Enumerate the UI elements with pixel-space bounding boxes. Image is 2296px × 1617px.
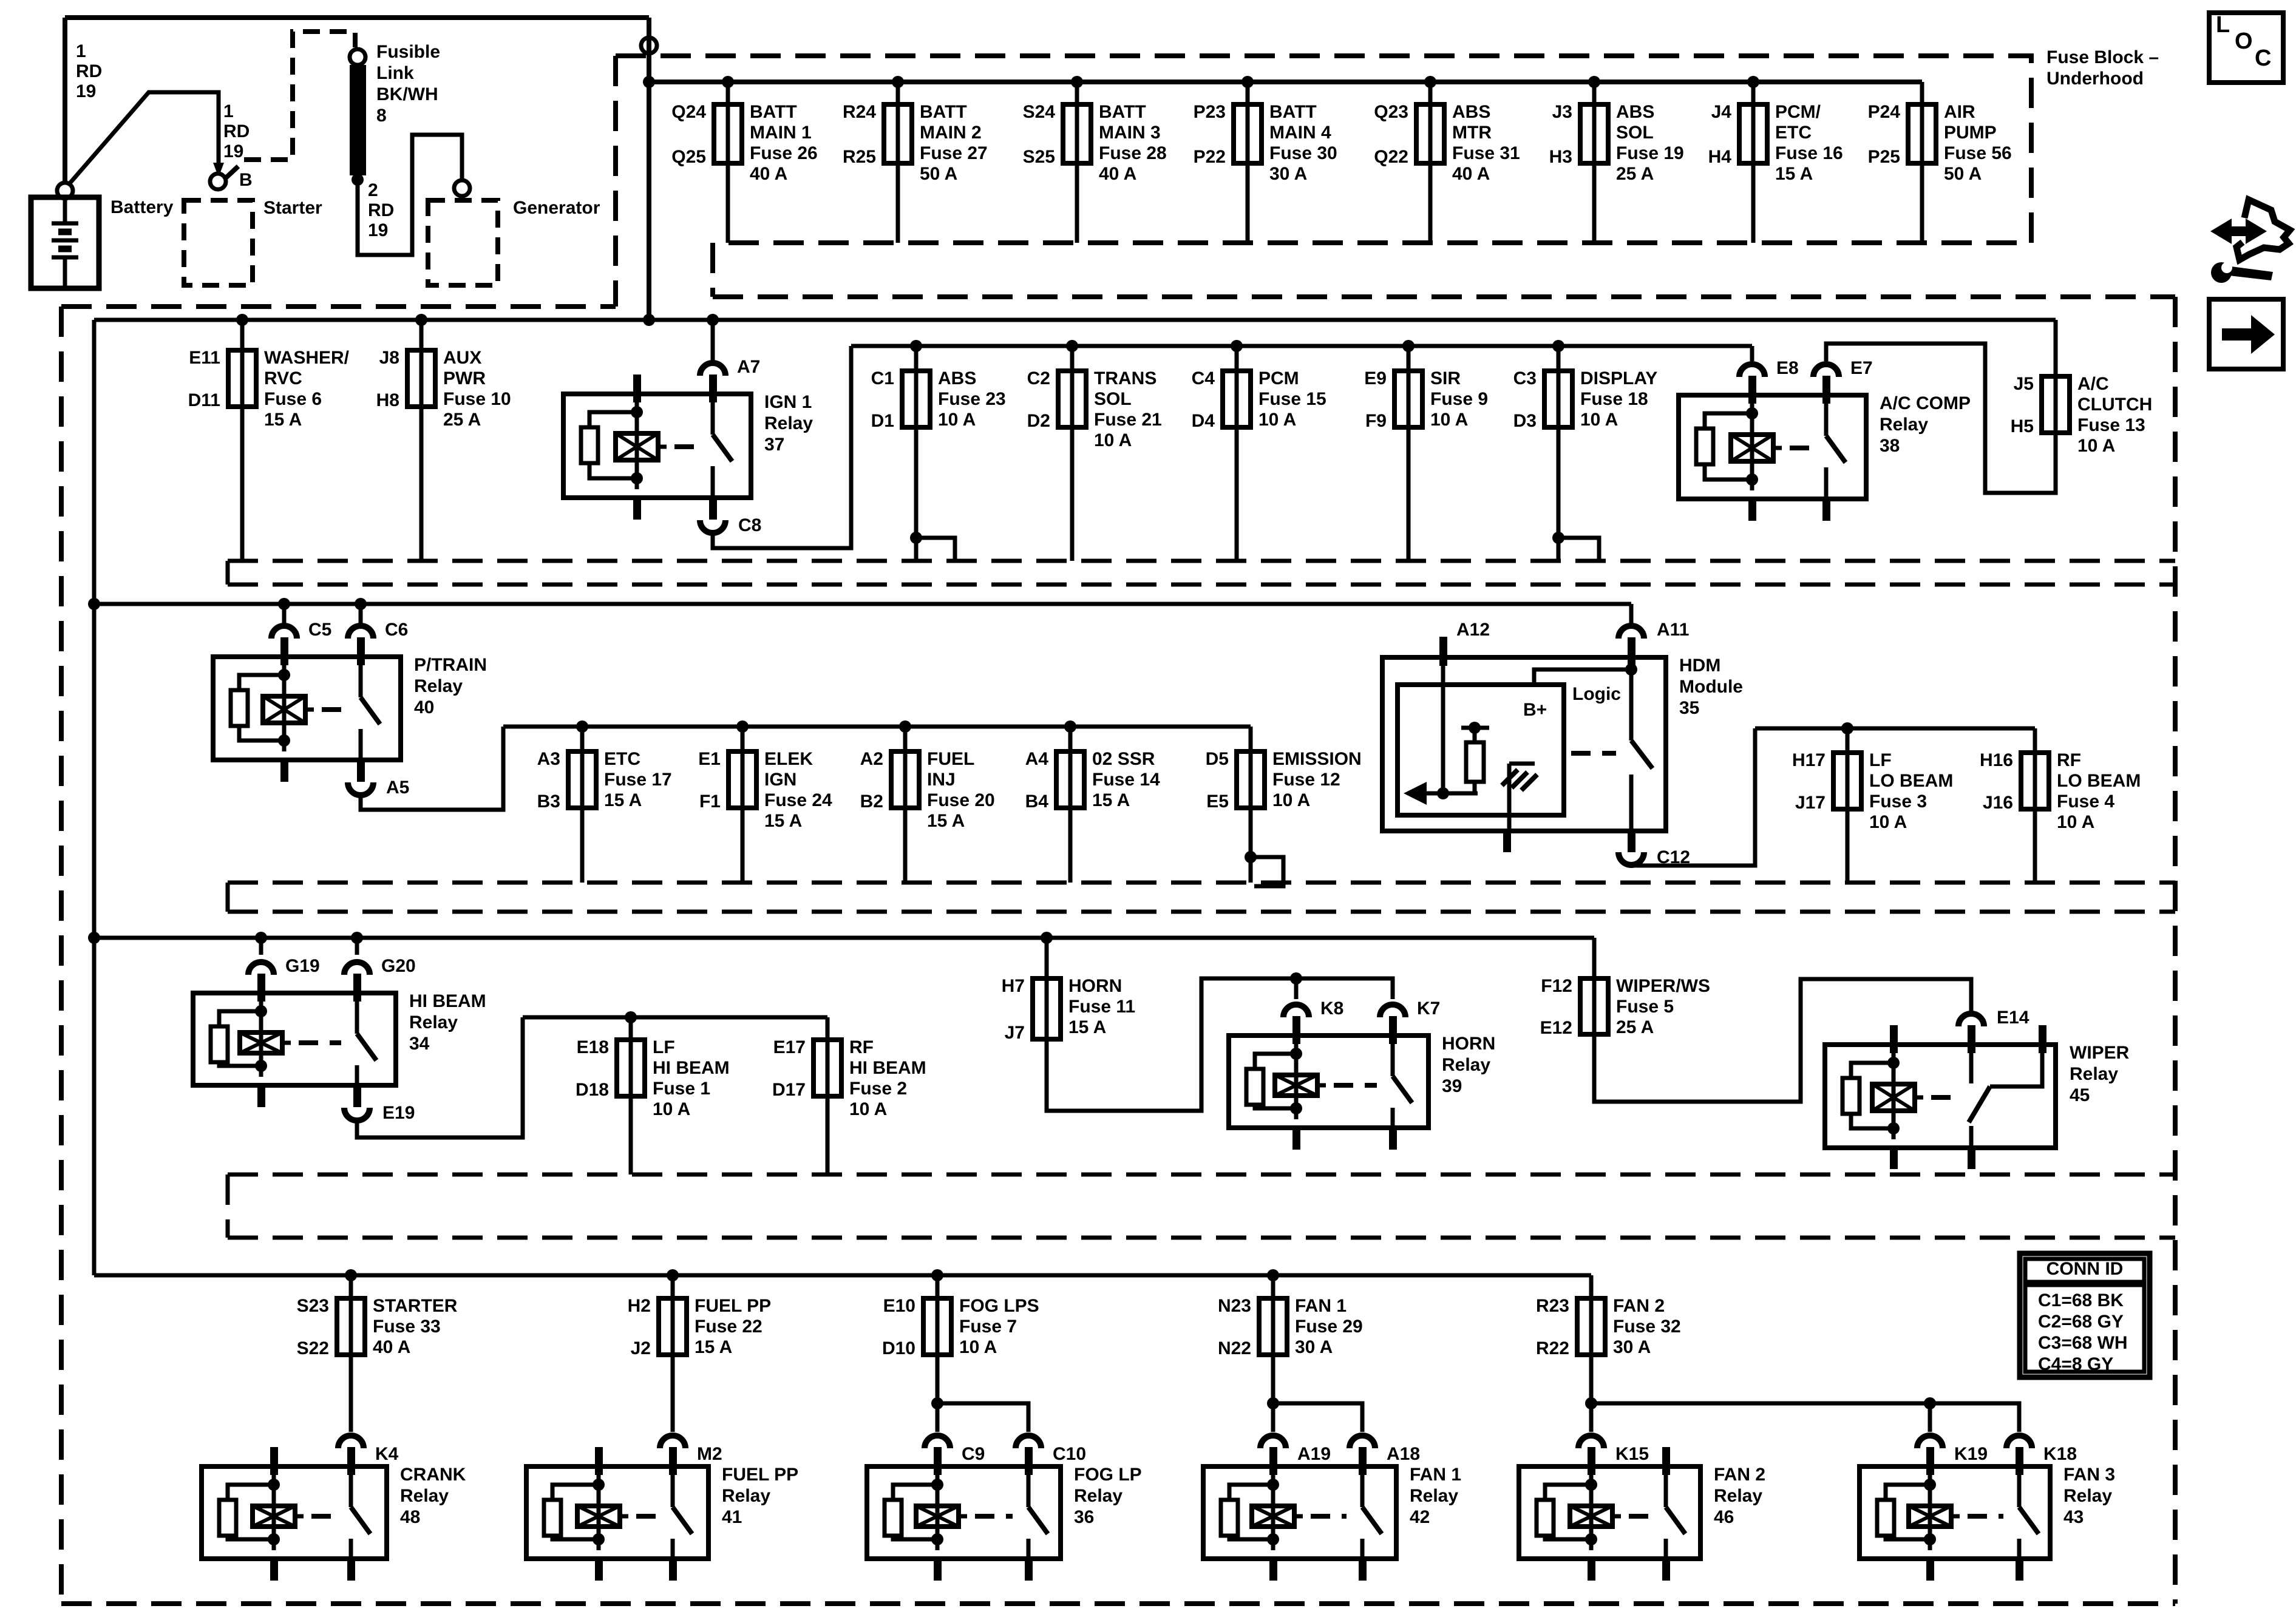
svg-text:D3: D3: [1513, 411, 1537, 431]
svg-text:10 A: 10 A: [1258, 410, 1296, 430]
svg-text:O: O: [2235, 29, 2253, 54]
svg-text:ABS: ABS: [938, 368, 976, 388]
svg-text:K4: K4: [375, 1444, 399, 1464]
svg-text:P23: P23: [1194, 102, 1226, 122]
svg-text:Module: Module: [1679, 677, 1743, 697]
fuse Fuse 23 (ABS): [914, 371, 919, 427]
svg-text:ETC: ETC: [604, 749, 640, 769]
fuse Fuse 15 (PCM): [1235, 371, 1239, 427]
wire A7 feed from bus1: [711, 320, 715, 361]
svg-text:ETC: ETC: [1775, 123, 1812, 143]
svg-text:MAIN 4: MAIN 4: [1269, 123, 1331, 143]
svg-text:D10: D10: [882, 1338, 915, 1358]
relay FOG LP Relay 36: [867, 1466, 1061, 1559]
svg-text:ABS: ABS: [1616, 102, 1654, 122]
svg-text:C3=68 WH: C3=68 WH: [2038, 1333, 2128, 1353]
svg-text:MTR: MTR: [1452, 123, 1492, 143]
svg-text:10 A: 10 A: [2077, 436, 2115, 456]
svg-text:Relay: Relay: [1410, 1486, 1458, 1506]
svg-text:E19: E19: [382, 1103, 415, 1123]
arrowhead into starter terminal: [213, 163, 224, 177]
junction row5 bus at H2: [667, 1269, 679, 1281]
relay FUEL PP Relay 41: [526, 1466, 708, 1559]
wire C12 to LO BEAM fuse bus: [1631, 728, 1755, 866]
svg-text:RF: RF: [849, 1037, 874, 1057]
wire A12 internal to arrow node: [1441, 666, 1445, 793]
wire FAN 2 fuse column: [1589, 1275, 1594, 1298]
svg-text:PWR: PWR: [443, 368, 486, 388]
svg-text:30 A: 30 A: [1269, 164, 1307, 184]
svg-text:SOL: SOL: [1616, 123, 1654, 143]
svg-text:Q22: Q22: [1374, 147, 1408, 167]
junction LF HI BEAM: [625, 1011, 637, 1023]
svg-text:ABS: ABS: [1452, 102, 1490, 122]
svg-text:LO BEAM: LO BEAM: [2057, 771, 2141, 791]
svg-text:TRANS: TRANS: [1094, 368, 1156, 388]
svg-text:E5: E5: [1206, 792, 1229, 812]
svg-text:10 A: 10 A: [1272, 790, 1310, 810]
fuse (D5/E5) Fuse 12: [1249, 751, 1253, 808]
wire G20 feed: [355, 938, 359, 955]
svg-text:D11: D11: [188, 390, 220, 410]
junction row2 bus at PCM: [1231, 340, 1243, 352]
battery B1: [31, 197, 99, 288]
svg-text:G20: G20: [381, 956, 416, 976]
fuse (A4/B4) Fuse 14: [1068, 751, 1073, 808]
wire BATT MAIN 4 fuse column: [1246, 82, 1250, 243]
body repair icon (double arrow, outline, wrench): [2230, 226, 2247, 236]
svg-text:FUEL PP: FUEL PP: [695, 1296, 771, 1316]
internal resistor: [1469, 722, 1481, 734]
svg-text:Fuse 3: Fuse 3: [1869, 792, 1927, 812]
svg-text:Relay: Relay: [722, 1486, 770, 1506]
junction row3 bus at C5: [278, 598, 290, 610]
wire main bus row2 (from battery feed): [94, 318, 2056, 322]
svg-text:Fuse 11: Fuse 11: [1068, 997, 1135, 1017]
starter (dashed box): [184, 200, 253, 285]
LOC legend box: [2209, 13, 2283, 83]
wire HORN fuse output to K8/K7: [1047, 978, 1393, 1111]
svg-text:40 A: 40 A: [373, 1337, 410, 1357]
svg-text:P24: P24: [1868, 102, 1901, 122]
junction bus1 x=399: [236, 314, 248, 326]
wire A11 feed from row3 bus: [1629, 604, 1634, 624]
junction bus1 x=694: [415, 314, 427, 326]
svg-text:A7: A7: [737, 357, 760, 377]
svg-text:P22: P22: [1194, 147, 1226, 167]
svg-text:35: 35: [1679, 698, 1699, 718]
svg-text:J2: J2: [631, 1338, 651, 1358]
svg-text:AUX: AUX: [443, 348, 481, 368]
svg-text:E12: E12: [1540, 1018, 1572, 1038]
svg-text:RD: RD: [368, 200, 394, 220]
wire STARTER fuse to K4: [349, 1355, 353, 1432]
junction fusible link bottom: [352, 174, 364, 186]
svg-text:AIR: AIR: [1944, 102, 1975, 122]
relay FAN 2 Relay 46: [1519, 1466, 1700, 1559]
internal arrow (B+ sense): [1421, 792, 1478, 796]
svg-text:K15: K15: [1615, 1444, 1649, 1464]
wire LF LO BEAM fuse column: [1846, 728, 1850, 883]
svg-text:CONN ID: CONN ID: [2046, 1259, 2124, 1279]
svg-text:J3: J3: [1552, 102, 1572, 122]
svg-text:A5: A5: [386, 778, 409, 798]
fuse Fuse 9 (SIR): [1407, 371, 1411, 427]
svg-text:E10: E10: [883, 1296, 915, 1316]
wire WIPER/WS fuse column: [1592, 938, 1597, 978]
svg-text:B2: B2: [860, 792, 883, 812]
svg-text:IGN 1: IGN 1: [764, 392, 812, 412]
wire HORN fuse column: [1045, 938, 1049, 978]
HDM switch: [1629, 670, 1634, 741]
svg-text:S22: S22: [297, 1338, 329, 1358]
svg-text:Generator: Generator: [513, 198, 600, 218]
svg-text:C4=8 GY: C4=8 GY: [2038, 1354, 2113, 1374]
dashed divider row3/row4: [228, 881, 2175, 885]
relay HORN Relay 39: [1229, 1036, 1428, 1128]
dashed divider row2/row3: [228, 559, 2175, 563]
svg-text:10 A: 10 A: [1869, 812, 1907, 832]
svg-text:PUMP: PUMP: [1944, 123, 1997, 143]
svg-text:C2=68 GY: C2=68 GY: [2038, 1312, 2124, 1332]
wire FOG LPS fuse column: [936, 1275, 940, 1298]
wire WIPER/WS fuse output to E14: [1594, 979, 1971, 1102]
wire C5 feed: [282, 604, 287, 624]
wire AIR PUMP fuse column: [1920, 82, 1924, 243]
svg-text:39: 39: [1442, 1076, 1462, 1096]
connector E14: [1958, 1014, 1984, 1026]
node generator terminal ring: [454, 180, 470, 196]
svg-text:Fusible: Fusible: [376, 42, 440, 62]
junction EMISSION fuse output: [1245, 851, 1257, 863]
wire A11 to logic: [1625, 663, 1637, 676]
svg-text:B3: B3: [537, 792, 560, 812]
underhood electrical center dashed enclosure: [61, 304, 616, 309]
svg-text:J17: J17: [1795, 793, 1826, 813]
svg-text:Fuse 15: Fuse 15: [1258, 389, 1326, 409]
wire LO BEAM fuse bus: [1755, 727, 2035, 731]
svg-text:A18: A18: [1387, 1444, 1420, 1464]
svg-text:C4: C4: [1192, 368, 1215, 388]
wire PCM fuse column: [1235, 346, 1239, 561]
fuse Fuse 29 (FAN 1): [1271, 1298, 1275, 1355]
wire WASHER/RVC fuse column: [240, 320, 245, 561]
svg-text:Fuse 31: Fuse 31: [1452, 143, 1520, 163]
svg-text:E9: E9: [1364, 368, 1387, 388]
svg-text:RVC: RVC: [264, 368, 302, 388]
wire A5 output to row3 fuse bus: [361, 727, 503, 810]
node main feed ring: [641, 38, 657, 53]
wire row5 trunk bus: [94, 1273, 1591, 1278]
svg-text:Fuse 56: Fuse 56: [1944, 143, 2012, 163]
svg-text:C3: C3: [1513, 368, 1537, 388]
svg-text:40 A: 40 A: [750, 164, 787, 184]
junction row3 fuse bus at A3: [576, 720, 588, 733]
svg-text:Relay: Relay: [1880, 415, 1928, 435]
junction row3 fuse bus at A2: [899, 720, 911, 733]
svg-text:25 A: 25 A: [1616, 1017, 1654, 1037]
fuse Fuse 7 (FOG LPS): [936, 1298, 940, 1355]
svg-text:N23: N23: [1218, 1296, 1251, 1316]
svg-text:Fuse Block –: Fuse Block –: [2046, 47, 2159, 67]
junction row5 bus at S23: [345, 1269, 357, 1281]
svg-text:Relay: Relay: [1074, 1486, 1123, 1506]
wire AUX PWR fuse column: [419, 320, 424, 561]
svg-text:1: 1: [223, 101, 234, 121]
node fusible link top ring: [350, 49, 365, 65]
wire BATT MAIN 1 fuse column: [726, 82, 730, 243]
svg-text:SOL: SOL: [1094, 389, 1132, 409]
wire LF HI BEAM fuse column: [629, 1017, 633, 1175]
svg-text:30 A: 30 A: [1295, 1337, 1333, 1357]
wire FAN 2 fuse to FAN 3 feeds: [1591, 1403, 2019, 1432]
wire BATT MAIN 3 fuse column: [1075, 82, 1079, 243]
svg-text:Fuse 28: Fuse 28: [1099, 143, 1167, 163]
fuse Fuse 28 (BATT MAIN 3): [1075, 104, 1079, 163]
WIPER relay switch: [1969, 1053, 1974, 1083]
svg-text:HORN: HORN: [1442, 1034, 1495, 1054]
wire RF HI BEAM fuse column: [826, 1017, 830, 1175]
svg-text:Q24: Q24: [671, 102, 706, 122]
svg-text:19: 19: [76, 81, 96, 101]
svg-text:E17: E17: [773, 1037, 806, 1057]
svg-text:F12: F12: [1541, 976, 1572, 996]
svg-text:J5: J5: [2014, 374, 2034, 394]
svg-text:45: 45: [2070, 1085, 2090, 1105]
wire A/C CLUTCH fuse feed from bus1: [2054, 320, 2058, 376]
relay WIPER Relay 45 box: [1825, 1045, 2056, 1148]
svg-text:Fuse 6: Fuse 6: [264, 389, 322, 409]
module HDM Module 35 box: [1382, 657, 1666, 831]
svg-text:A/C: A/C: [2077, 374, 2109, 394]
svg-text:Fuse 4: Fuse 4: [2057, 792, 2114, 812]
fuse Fuse 33 (STARTER): [349, 1298, 353, 1355]
junction top bus at BATT MAIN 2: [892, 76, 904, 88]
svg-text:BK/WH: BK/WH: [376, 84, 438, 104]
svg-text:25 A: 25 A: [1616, 164, 1654, 184]
svg-text:25 A: 25 A: [443, 410, 481, 430]
svg-text:M2: M2: [697, 1444, 722, 1464]
svg-text:BATT: BATT: [750, 102, 797, 122]
svg-text:50 A: 50 A: [920, 164, 957, 184]
junction row3 fuse bus at A4: [1064, 720, 1076, 733]
wire ABS fuse column: [914, 346, 919, 561]
svg-text:LF: LF: [653, 1037, 675, 1057]
svg-text:R22: R22: [1536, 1338, 1569, 1358]
svg-text:15 A: 15 A: [264, 410, 302, 430]
relay CRANK Relay 48: [202, 1466, 387, 1559]
svg-text:CRANK: CRANK: [400, 1465, 466, 1485]
fusible link BK/WH 8: [350, 65, 366, 175]
wire STARTER fuse column: [349, 1275, 353, 1298]
svg-text:30 A: 30 A: [1613, 1337, 1651, 1357]
svg-text:Fuse 16: Fuse 16: [1775, 143, 1843, 163]
svg-text:S24: S24: [1023, 102, 1056, 122]
svg-text:R23: R23: [1536, 1296, 1569, 1316]
wire PCM/ ETC fuse column: [1751, 82, 1756, 243]
junction row4 bus at H7: [1041, 932, 1053, 944]
fuse Fuse 3 (LF LO BEAM): [1846, 753, 1850, 809]
svg-text:Fuse 21: Fuse 21: [1094, 410, 1162, 430]
junction K19 feed: [1924, 1397, 1936, 1409]
svg-text:BATT: BATT: [1099, 102, 1146, 122]
wire C8 output to row2 fuse bus: [713, 346, 851, 548]
svg-text:Relay: Relay: [2070, 1064, 2118, 1084]
svg-text:10 A: 10 A: [1580, 410, 1618, 430]
svg-text:PCM: PCM: [1258, 368, 1299, 388]
svg-text:S23: S23: [297, 1296, 329, 1316]
svg-text:H7: H7: [1002, 976, 1025, 996]
junction row2 bus at DISPLAY: [1552, 340, 1564, 352]
junction top bus at BATT MAIN 3: [1071, 76, 1083, 88]
junction row2 bus at TRANS: [1066, 340, 1078, 352]
junction K8 feed: [1290, 972, 1302, 985]
svg-text:Fuse 33: Fuse 33: [373, 1317, 441, 1337]
svg-text:S25: S25: [1023, 147, 1055, 167]
junction row4 bus at left trunk: [88, 932, 100, 944]
svg-text:10 A: 10 A: [938, 410, 976, 430]
svg-text:Fuse 9: Fuse 9: [1430, 389, 1488, 409]
generator (dashed box): [428, 200, 498, 285]
fuse (E1/F1) Fuse 24: [741, 751, 745, 808]
svg-text:19: 19: [223, 141, 243, 161]
wire RF LO BEAM fuse column: [2033, 728, 2037, 883]
svg-text:HI BEAM: HI BEAM: [849, 1058, 926, 1078]
svg-text:MAIN 1: MAIN 1: [750, 123, 812, 143]
dashed wire starter B to fusible link: [226, 32, 355, 178]
svg-text:FAN 1: FAN 1: [1295, 1296, 1347, 1316]
svg-text:C8: C8: [738, 515, 761, 535]
wire FAN 1 fuse column: [1271, 1275, 1275, 1298]
svg-text:CLUTCH: CLUTCH: [2077, 395, 2152, 415]
svg-text:K18: K18: [2043, 1444, 2077, 1464]
svg-text:E14: E14: [1997, 1008, 2029, 1028]
svg-text:E11: E11: [189, 348, 220, 368]
svg-text:C10: C10: [1053, 1444, 1086, 1464]
svg-text:N22: N22: [1218, 1338, 1251, 1358]
svg-text:Q23: Q23: [1374, 102, 1408, 122]
fuse Fuse 56 (AIR PUMP): [1920, 104, 1924, 163]
junction top bus at ABS SOL: [1588, 76, 1600, 88]
svg-text:10 A: 10 A: [959, 1337, 997, 1357]
svg-text:Relay: Relay: [409, 1012, 458, 1032]
svg-text:Starter: Starter: [263, 198, 322, 218]
svg-text:A11: A11: [1657, 620, 1689, 640]
svg-text:C6: C6: [385, 620, 408, 640]
wire 2 RD 19 fusible link to generator: [358, 135, 462, 255]
svg-text:HI BEAM: HI BEAM: [409, 991, 486, 1011]
svg-text:E18: E18: [577, 1037, 609, 1057]
wire G19 feed: [259, 938, 263, 955]
svg-text:H8: H8: [376, 390, 399, 410]
relay HI BEAM Relay 34: [193, 993, 396, 1085]
svg-text:Logic: Logic: [1572, 684, 1621, 704]
svg-text:C1: C1: [871, 368, 894, 388]
fuse (A2/B2) Fuse 20: [903, 751, 908, 808]
svg-text:FAN 3: FAN 3: [2063, 1465, 2115, 1485]
svg-text:INJ: INJ: [927, 770, 956, 790]
svg-text:WIPER: WIPER: [2070, 1043, 2130, 1063]
wire A3 fuse column: [580, 727, 585, 883]
wire A2 fuse column: [903, 727, 908, 883]
wire 1 RD 19 battery to starter B: [69, 92, 219, 184]
svg-text:F1: F1: [699, 792, 721, 812]
page-connector square at EMISSION output: [1251, 857, 1283, 886]
fuse Fuse 5 (WIPER/WS): [1592, 978, 1597, 1034]
svg-text:40: 40: [414, 697, 434, 717]
svg-text:H2: H2: [628, 1296, 651, 1316]
wire row2 fuse bus: [851, 344, 1752, 348]
wire row3 fuse bus: [503, 725, 1251, 729]
svg-text:43: 43: [2063, 1507, 2084, 1527]
svg-text:HI BEAM: HI BEAM: [653, 1058, 730, 1078]
svg-text:J7: J7: [1005, 1023, 1025, 1043]
svg-text:D5: D5: [1206, 749, 1229, 769]
relay IGN 1 Relay 37: [563, 394, 751, 498]
junction row5 bus at N23: [1267, 1269, 1279, 1281]
svg-text:Underhood: Underhood: [2046, 69, 2144, 89]
svg-text:Fuse 22: Fuse 22: [695, 1317, 763, 1337]
svg-text:A/C COMP: A/C COMP: [1880, 393, 1971, 413]
wire row4 trunk bus: [94, 936, 1594, 940]
connector C12: [1618, 852, 1644, 865]
wire FUEL PP fuse to M2: [671, 1355, 675, 1432]
svg-text:E7: E7: [1850, 358, 1873, 378]
svg-text:FAN 2: FAN 2: [1613, 1296, 1665, 1316]
svg-text:B+: B+: [1523, 700, 1547, 720]
forward arrow box icon: [2209, 299, 2283, 369]
junction DISPLAY fuse output split: [1552, 532, 1564, 544]
junction bus1 x=1069: [643, 314, 655, 326]
svg-text:36: 36: [1074, 1507, 1094, 1527]
junction row5 bus at E10: [931, 1269, 943, 1281]
junction top bus at BATT MAIN 1: [722, 76, 734, 88]
svg-text:Fuse 17: Fuse 17: [604, 770, 672, 790]
wire SIR fuse column: [1407, 346, 1411, 561]
relay FAN 3 Relay 43: [1860, 1466, 2050, 1559]
junction row2 bus at SIR: [1402, 340, 1415, 352]
wire row3 trunk bus: [94, 602, 1631, 606]
wire FOG LPS fuse output split: [936, 1355, 940, 1432]
svg-text:D2: D2: [1027, 411, 1050, 431]
pin A12: [1439, 637, 1447, 666]
svg-text:41: 41: [722, 1507, 742, 1527]
svg-text:P/TRAIN: P/TRAIN: [414, 655, 487, 675]
svg-text:WIPER/WS: WIPER/WS: [1616, 976, 1710, 996]
svg-text:R24: R24: [843, 102, 876, 122]
svg-text:F9: F9: [1365, 411, 1387, 431]
fuse Fuse 27 (BATT MAIN 2): [896, 104, 900, 163]
svg-text:FUEL PP: FUEL PP: [722, 1465, 798, 1485]
svg-text:15 A: 15 A: [927, 811, 965, 831]
svg-text:J8: J8: [379, 348, 399, 368]
svg-text:RD: RD: [76, 61, 102, 81]
svg-text:STARTER: STARTER: [373, 1296, 458, 1316]
wire HI BEAM fuse bus: [523, 1015, 827, 1020]
fuse (A3/B3) Fuse 17: [580, 751, 585, 808]
fuse Fuse 11 (HORN): [1045, 978, 1049, 1039]
svg-text:WASHER/: WASHER/: [264, 348, 350, 368]
junction ABS fuse output split: [910, 532, 922, 544]
svg-text:10 A: 10 A: [653, 1099, 690, 1119]
wire A4 fuse column: [1068, 727, 1073, 883]
svg-text:RF: RF: [2057, 750, 2081, 770]
svg-text:G19: G19: [285, 956, 320, 976]
svg-text:40 A: 40 A: [1099, 164, 1136, 184]
svg-text:FOG LP: FOG LP: [1074, 1465, 1142, 1485]
junction row4 bus at G20: [351, 932, 363, 944]
svg-text:Fuse 26: Fuse 26: [750, 143, 818, 163]
